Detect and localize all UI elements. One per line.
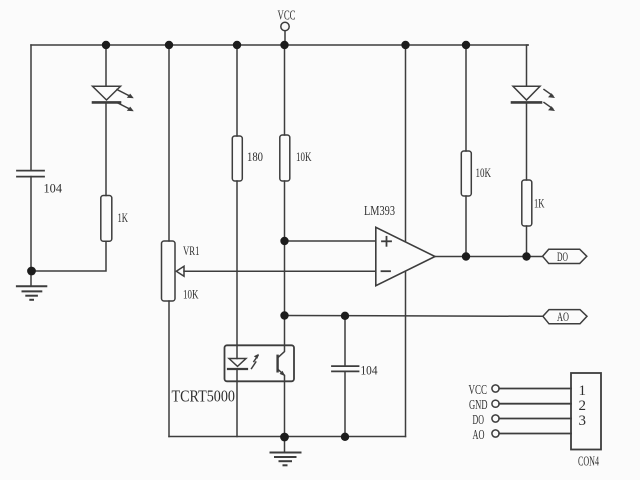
resistor 10K mid: [280, 135, 290, 181]
wire comparator GND pin: [405, 271, 407, 437]
svg-text:1K: 1K: [534, 197, 545, 211]
wire VR1 bottom to ground rail: [168, 301, 170, 437]
LED D2: [512, 86, 555, 111]
wire capacitor C2 top lead: [344, 316, 346, 367]
junction dot rail x405: [401, 41, 409, 49]
svg-text:VCC: VCC: [469, 383, 488, 398]
svg-text:3: 3: [579, 413, 587, 429]
resistor 1K left: [101, 196, 112, 242]
wire VCC terminal to rail: [284, 31, 286, 45]
wire capacitor C2 bottom lead: [344, 371, 346, 436]
DO net flag: [543, 249, 587, 263]
svg-text:AO: AO: [473, 428, 485, 443]
junction dot AO node: [280, 311, 288, 319]
junction dot rail x237: [233, 41, 241, 49]
wire node to comparator non-inverting input: [285, 240, 376, 242]
wire comparator VCC pin: [405, 45, 407, 242]
resistor 180: [232, 136, 242, 181]
junction dot rail x106: [102, 41, 110, 49]
op-amp minus sign: [382, 270, 391, 272]
svg-text:VR1: VR1: [183, 243, 200, 258]
wire 10K mid column top: [284, 45, 286, 135]
wire AO node to AO flag: [285, 315, 544, 318]
VR1 wiper arrow: [176, 266, 184, 276]
junction dot DO at LED: [522, 252, 530, 260]
ground bottom: [271, 437, 301, 466]
wire left column down to C1: [30, 45, 32, 170]
svg-text:104: 104: [44, 182, 63, 196]
wire 1K left bottom: [32, 241, 107, 271]
wire right LED column top: [527, 45, 529, 86]
junction dot bottom rail ground: [280, 433, 289, 442]
connector CON4 body: [571, 373, 601, 450]
svg-text:TCRT5000: TCRT5000: [172, 387, 236, 406]
op-amp plus sign: [382, 237, 391, 246]
wire CON4 pin 2: [499, 403, 571, 405]
junction dot left ground node: [27, 267, 36, 276]
junction dot C2 top: [341, 312, 349, 320]
wire 10K mid bottom to node: [284, 181, 286, 241]
wire 10K right column top: [465, 45, 467, 151]
potentiometer VR1 body: [162, 241, 176, 301]
svg-text:LM393: LM393: [364, 203, 395, 218]
svg-text:DO: DO: [557, 250, 568, 264]
wire VR1 wiper to comparator inverting input: [184, 270, 376, 272]
capacitor C2 104: [332, 366, 359, 371]
svg-text:GND: GND: [469, 398, 488, 413]
svg-text:1K: 1K: [118, 211, 129, 225]
wire 10K right bottom to DO: [465, 196, 467, 257]
TCRT5000 internal LED: [228, 359, 247, 370]
junction dot DO at 10K: [462, 252, 470, 260]
wire AO node down to TCRT5000 collector: [284, 316, 286, 346]
svg-text:10K: 10K: [476, 166, 492, 180]
wire 180 bottom to TCRT5000 LED anode: [236, 181, 238, 359]
TCRT5000 box U2: [225, 345, 295, 381]
op-amp U1 LM393 triangle: [376, 227, 435, 285]
junction dot bottom rail C2: [341, 433, 349, 441]
wire 180 column top: [236, 45, 238, 136]
TCRT5000 IR emission arrow: [252, 354, 259, 369]
TCRT5000 phototransistor: [278, 345, 286, 381]
wire C1 bottom to ground node: [30, 177, 32, 271]
svg-text:104: 104: [361, 364, 379, 378]
wire TCRT5000 LED cathode to ground rail: [236, 370, 238, 437]
wire CON4 pin 3: [499, 418, 571, 420]
wire TCRT5000 emitter to ground rail: [284, 381, 286, 436]
ground left: [17, 271, 46, 300]
connector CON4 pin 1 circle: [492, 385, 499, 392]
wire comparator output to DO flag: [435, 256, 543, 258]
wire LED D1 to R 1K: [105, 104, 107, 196]
wire node down to AO node: [284, 241, 286, 316]
junction dot rail x284 VCC tap: [280, 41, 288, 49]
wire 1K right bottom to DO: [526, 226, 528, 257]
svg-text:1: 1: [579, 383, 587, 399]
resistor 10K right: [461, 151, 471, 196]
AO net flag: [543, 310, 587, 324]
svg-text:DO: DO: [473, 413, 485, 428]
svg-text:CON4: CON4: [578, 453, 599, 468]
wire LED D2 to 1K right: [526, 104, 528, 181]
connector CON4 pin 2 circle: [492, 400, 499, 407]
wire VR1 column top: [168, 45, 170, 241]
junction dot rail x466: [462, 41, 470, 49]
svg-text:10K: 10K: [183, 287, 199, 302]
wire CON4 pin 4: [499, 433, 571, 435]
wire LED1 column top: [105, 45, 107, 86]
wire ground rail bottom: [169, 436, 406, 438]
svg-text:180: 180: [247, 150, 263, 164]
resistor 1K right: [522, 180, 532, 226]
connector CON4 pin 3 circle: [492, 415, 499, 422]
svg-text:2: 2: [579, 398, 587, 414]
svg-text:VCC: VCC: [278, 9, 296, 24]
capacitor C1 104: [17, 171, 44, 177]
wire VCC top rail: [31, 44, 528, 46]
svg-text:10K: 10K: [296, 150, 312, 164]
junction dot plus input node: [280, 237, 288, 245]
svg-text:AO: AO: [557, 310, 569, 324]
connector CON4 pin 4 circle: [492, 430, 499, 437]
junction dot rail x169: [165, 41, 173, 49]
wire CON4 pin 1: [499, 388, 571, 390]
VCC terminal circle: [281, 22, 289, 30]
LED D1: [93, 86, 134, 111]
